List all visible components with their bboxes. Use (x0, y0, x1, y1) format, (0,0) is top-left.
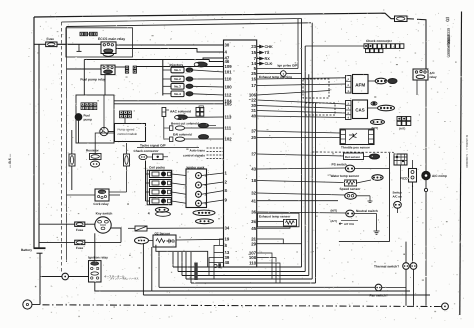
svg-text:45: 45 (251, 226, 256, 231)
svg-text:Ign pulse O/P: Ign pulse O/P (278, 64, 298, 68)
svg-text:No.1: No.1 (174, 68, 181, 72)
svg-text:Speed sensor: Speed sensor (340, 187, 362, 191)
svg-text:112: 112 (225, 93, 233, 98)
svg-text:Tacho signal O/P: Tacho signal O/P (140, 143, 166, 147)
svg-text:CAS: CAS (355, 108, 364, 113)
svg-text:108: 108 (249, 255, 257, 260)
svg-text:Fan switch?: Fan switch? (370, 293, 388, 297)
svg-text:Det sensor: Det sensor (345, 155, 361, 159)
svg-text:RX: RX (265, 57, 271, 61)
svg-text:(A/T): (A/T) (399, 127, 405, 131)
svg-text:A/T C/U: A/T C/U (344, 222, 354, 226)
svg-text:PS switch: PS switch (332, 162, 347, 166)
svg-text:17: 17 (251, 83, 256, 88)
svg-text:32: 32 (251, 191, 256, 196)
svg-text:control module: control module (118, 132, 138, 136)
svg-text:Throttle pos sensor: Throttle pos sensor (341, 145, 371, 149)
svg-text:Ignition relay: Ignition relay (88, 255, 108, 259)
svg-text:25: 25 (251, 71, 256, 76)
svg-text:30: 30 (225, 43, 230, 48)
svg-text:4: 4 (148, 212, 150, 216)
svg-text:A/C comp: A/C comp (432, 174, 447, 178)
svg-text:No.4: No.4 (174, 92, 181, 96)
svg-text:15: 15 (251, 50, 256, 55)
svg-text:Battery: Battery (21, 248, 32, 252)
svg-text:101: 101 (225, 70, 233, 75)
svg-text:AAC solenoid: AAC solenoid (170, 110, 191, 114)
svg-text:(M/T): (M/T) (331, 209, 338, 213)
svg-text:18: 18 (251, 178, 256, 183)
svg-text:control signals: control signals (183, 154, 205, 158)
svg-text:111: 111 (225, 126, 232, 131)
svg-text:ECCS回路図(SR20DET): ECCS回路図(SR20DET) (447, 28, 451, 57)
svg-text:110: 110 (225, 77, 233, 82)
svg-text:ECCS main relay: ECCS main relay (98, 37, 125, 41)
svg-text:— B-5 —: — B-5 — (8, 153, 12, 168)
svg-text:Cork relay: Cork relay (93, 202, 108, 206)
svg-text:FICD: FICD (400, 177, 408, 181)
svg-text:Coil packs: Coil packs (149, 165, 165, 169)
svg-text:Fuse: Fuse (47, 37, 55, 41)
svg-text:102: 102 (225, 137, 233, 142)
svg-text:EAI solenoid: EAI solenoid (173, 133, 192, 137)
svg-text:113: 113 (225, 115, 233, 120)
svg-text:Fuse: Fuse (76, 246, 84, 250)
svg-text:105: 105 (225, 101, 233, 106)
svg-text:Fuse: Fuse (76, 228, 84, 232)
svg-text:29: 29 (251, 241, 256, 246)
svg-text:100: 100 (225, 85, 233, 90)
svg-text:(2): (2) (446, 17, 450, 22)
svg-text:(A/T): (A/T) (331, 219, 337, 223)
svg-text:109: 109 (225, 64, 233, 69)
svg-text:19: 19 (225, 237, 230, 242)
svg-text:23: 23 (251, 44, 256, 49)
svg-text:31: 31 (251, 108, 256, 113)
svg-text:AFM: AFM (355, 83, 365, 88)
svg-text:22: 22 (251, 98, 256, 103)
svg-text:41: 41 (251, 198, 256, 203)
svg-text:TX: TX (265, 51, 270, 55)
svg-text:Key switch: Key switch (96, 211, 113, 215)
svg-text:Exhaust temp sensor: Exhaust temp sensor (259, 215, 291, 219)
svg-text:M JA0851-1 ・ 5-30E8B08: M JA0851-1 ・ 5-30E8B08 (465, 135, 468, 168)
svg-text:Boost cut solenoid: Boost cut solenoid (171, 121, 199, 125)
svg-text:16: 16 (251, 77, 256, 82)
svg-text:37: 37 (251, 129, 256, 134)
svg-text:Thermal switch?: Thermal switch? (374, 265, 399, 269)
svg-text:relay: relay (430, 75, 437, 79)
svg-text:34: 34 (225, 225, 230, 230)
svg-text:118: 118 (249, 261, 257, 266)
svg-text:Resistor: Resistor (86, 149, 100, 153)
svg-text:pump: pump (84, 118, 93, 122)
svg-text:Pump speed: Pump speed (118, 128, 135, 132)
svg-text:20: 20 (251, 135, 256, 140)
svg-text:43: 43 (251, 167, 256, 172)
svg-text:Neutral switch: Neutral switch (356, 209, 378, 213)
svg-text:CHK: CHK (265, 45, 273, 49)
svg-text:27: 27 (251, 152, 256, 157)
svg-text:Water temp sensor: Water temp sensor (331, 174, 360, 178)
svg-text:A/C on: A/C on (393, 195, 403, 199)
svg-text:Fuel pump relay: Fuel pump relay (80, 78, 105, 82)
svg-text:48: 48 (225, 260, 230, 265)
svg-text:Auto trans: Auto trans (190, 148, 206, 152)
svg-text:No.2: No.2 (174, 77, 181, 81)
svg-text:36: 36 (251, 210, 256, 215)
svg-text:Check connector: Check connector (134, 149, 160, 153)
svg-text:Injectors: Injectors (170, 63, 184, 67)
svg-text:No.3: No.3 (174, 85, 181, 89)
